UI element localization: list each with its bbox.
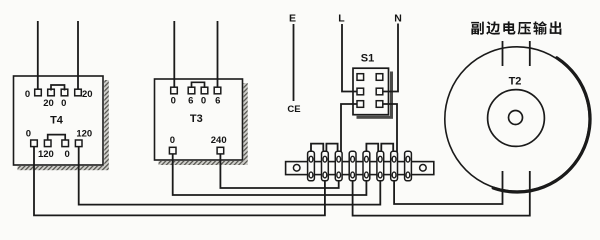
terminal 3 [335,151,342,181]
caption: secondary voltage output (Chinese) [471,21,561,35]
jumper terminals 1-2 [311,144,323,153]
terminal 8 [405,151,412,181]
toroidal transformer T2 outer ring [445,47,589,191]
wire T2 output lead a (top) [502,41,504,66]
terminal strip bar [286,162,434,175]
svg-text:0: 0 [201,96,206,107]
T3 primary terminals (top row) [171,87,221,94]
terminal strip left mounting hole [293,165,300,172]
wire L line to S1 [342,24,358,92]
wire terminal 4 to T2 lead b [353,171,530,216]
svg-text:0: 0 [65,149,70,160]
terminal 4 [349,151,356,181]
wire T3 sec 0 to terminal 5 [173,150,367,195]
transformer T3 [155,79,248,165]
svg-text:0: 0 [170,135,175,146]
T4 secondary centre-tap link [48,135,65,141]
svg-text:0: 0 [25,89,30,100]
svg-text:0: 0 [171,96,176,107]
svg-text:6: 6 [188,96,193,107]
T3 primary centre-tap link [192,82,205,88]
svg-text:E: E [289,13,296,25]
wire S1 lower-left pin to terminal 3 [341,104,358,153]
wire T3 primary lead 1 (top) [173,21,175,89]
svg-text:CE: CE [287,104,300,115]
wire T3 primary lead 2 (top) [217,21,219,89]
terminal strip right mounting hole [420,165,427,172]
svg-text:T4: T4 [50,115,64,127]
jumper terminals 2-3 [326,144,337,153]
T4 primary terminals (top row) [35,89,82,96]
svg-text:20: 20 [43,98,54,109]
T3 secondary terminals (bottom row) [169,147,223,154]
wire S1 lower-right pin to terminal 7 [381,104,397,153]
T2 center hole [509,111,523,125]
transformer T4 [14,76,109,170]
svg-text:N: N [394,13,402,25]
svg-text:120: 120 [38,149,54,160]
terminal 1 [308,151,315,181]
wire T4 sec 120 to terminal 6 [79,142,381,205]
terminal 6 [377,151,384,181]
jumper terminals 6-7 [381,144,393,153]
svg-text:L: L [338,13,345,25]
switch S1 [353,68,393,119]
wire T4 primary lead 1 (top) [37,21,39,90]
svg-text:120: 120 [76,128,92,139]
svg-text:240: 240 [211,135,227,146]
jumper terminals 5-6 [366,144,378,153]
wire N line to S1 [381,24,398,92]
T4 primary centre-tap link [51,85,65,91]
wire T4 primary lead 2 (top) [77,21,79,90]
svg-text:0: 0 [26,128,31,139]
svg-text:20: 20 [82,89,93,100]
svg-text:S1: S1 [361,53,374,65]
terminal 2 [322,151,329,181]
wire T3 sec 240 to terminal 3 [220,150,338,188]
svg-text:T2: T2 [509,76,522,88]
wire T2 output lead b (top) [529,41,531,66]
svg-text:0: 0 [61,98,66,109]
svg-text:T3: T3 [190,113,203,125]
T4 secondary terminals (bottom row) [31,140,82,147]
wire E earth line [293,24,295,101]
svg-text:6: 6 [215,96,220,107]
terminal 7 [391,151,398,181]
terminal 5 [363,151,370,181]
T2 inner ring [488,90,545,147]
wire T4 sec 0 to terminal 2 [34,142,325,215]
S1 contact pins (2x3) [357,74,383,108]
T2 ring shadow edge [493,58,590,192]
wire terminal 7 to T2 lead a [394,171,502,204]
